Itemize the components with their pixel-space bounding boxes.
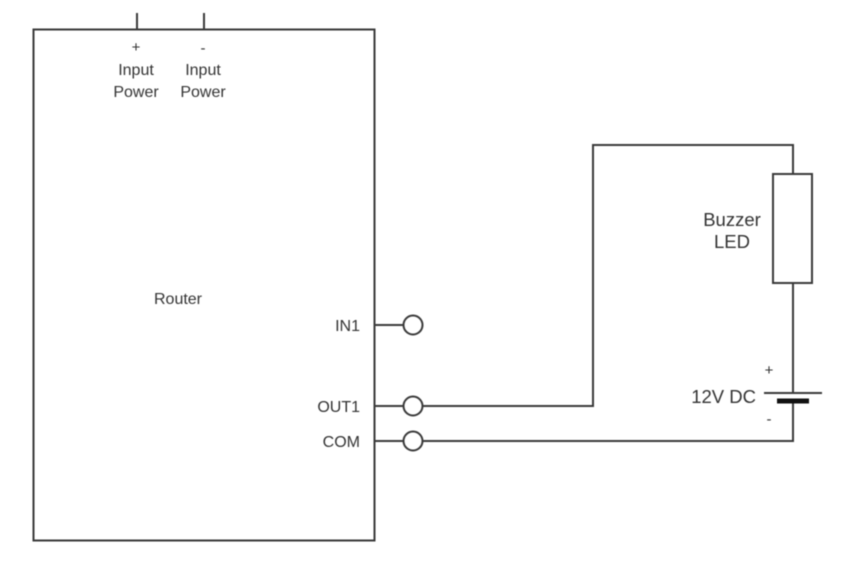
terminal circle COM: [404, 432, 423, 451]
wire COM stub: [375, 440, 403, 442]
wire buzzer to battery: [792, 283, 794, 393]
svg-text:Router: Router: [154, 291, 203, 308]
svg-text:LED: LED: [714, 231, 750, 252]
buzzer LED label: [703, 209, 761, 252]
svg-text:12V DC: 12V DC: [691, 386, 756, 407]
Input Power label (+): [113, 62, 159, 101]
terminal circle IN1: [404, 316, 423, 335]
svg-text:-: -: [767, 411, 772, 428]
svg-text:OUT1: OUT1: [317, 399, 360, 416]
battery B1 negative plate: [777, 399, 809, 404]
Input Power label (-): [180, 62, 226, 101]
svg-text:-: -: [201, 40, 206, 57]
svg-text:Power: Power: [113, 84, 159, 101]
svg-text:Input: Input: [118, 62, 154, 79]
wire battery to COM run: [423, 404, 794, 442]
pin - Input Power: [203, 13, 205, 30]
wire IN1 stub: [375, 324, 403, 326]
pin + Input Power: [136, 13, 138, 30]
router box U1: [34, 30, 375, 541]
battery B1 positive plate: [764, 392, 822, 394]
svg-text:Input: Input: [185, 62, 221, 79]
wire OUT1 to loop (horizontal + vertical up + top run): [423, 145, 794, 406]
svg-text:COM: COM: [323, 434, 360, 451]
terminal circle OUT1: [404, 397, 423, 416]
svg-text:IN1: IN1: [335, 318, 360, 335]
svg-text:Power: Power: [180, 84, 226, 101]
svg-text:Buzzer: Buzzer: [703, 209, 761, 230]
svg-text:+: +: [132, 39, 141, 56]
buzzer LED component: [773, 174, 812, 283]
wire OUT1 stub: [375, 405, 403, 407]
svg-text:+: +: [765, 362, 774, 379]
